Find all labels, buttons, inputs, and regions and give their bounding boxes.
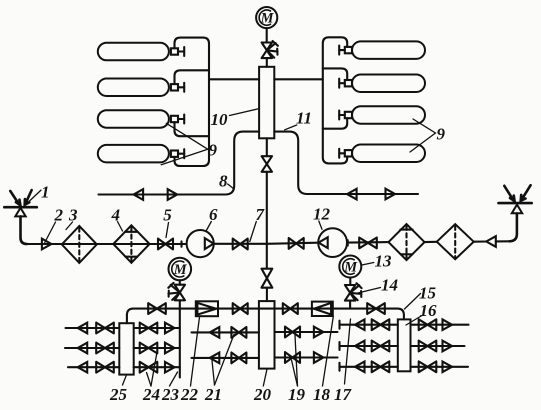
svg-text:6: 6 xyxy=(209,205,218,224)
svg-text:10: 10 xyxy=(211,110,229,129)
svg-text:7: 7 xyxy=(256,205,266,224)
svg-text:16: 16 xyxy=(420,301,438,320)
svg-text:11: 11 xyxy=(296,109,312,128)
svg-text:2: 2 xyxy=(54,206,64,225)
svg-text:5: 5 xyxy=(163,206,172,225)
svg-text:15: 15 xyxy=(419,284,437,303)
svg-text:24: 24 xyxy=(142,385,160,404)
svg-text:20: 20 xyxy=(253,385,272,404)
svg-text:18: 18 xyxy=(313,385,331,404)
svg-text:M: M xyxy=(173,262,188,278)
svg-text:12: 12 xyxy=(313,205,331,224)
svg-text:17: 17 xyxy=(334,385,353,404)
svg-text:8: 8 xyxy=(219,172,228,191)
svg-text:14: 14 xyxy=(381,276,398,295)
svg-text:M: M xyxy=(260,11,275,27)
svg-text:3: 3 xyxy=(68,206,78,225)
svg-text:9: 9 xyxy=(209,141,218,160)
svg-text:21: 21 xyxy=(204,385,222,404)
svg-text:4: 4 xyxy=(111,206,121,225)
svg-text:1: 1 xyxy=(41,183,50,202)
svg-text:23: 23 xyxy=(161,385,180,404)
svg-text:19: 19 xyxy=(288,385,306,404)
svg-text:13: 13 xyxy=(375,252,393,271)
svg-text:M: M xyxy=(343,260,358,276)
svg-text:25: 25 xyxy=(109,385,128,404)
svg-text:9: 9 xyxy=(437,125,446,144)
svg-text:22: 22 xyxy=(180,385,199,404)
